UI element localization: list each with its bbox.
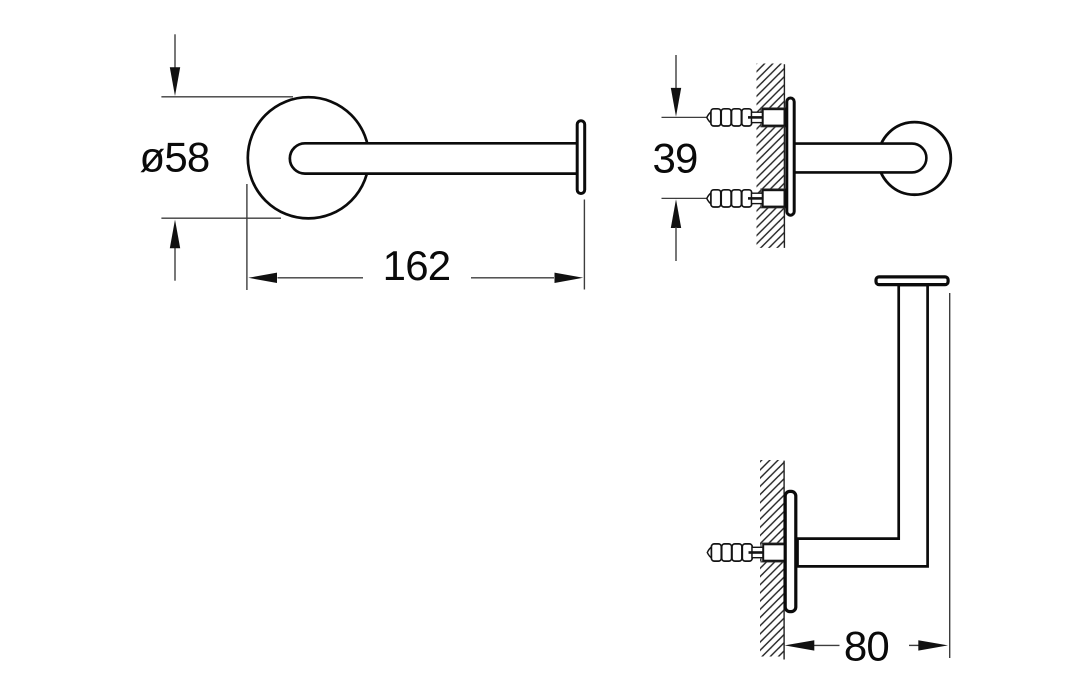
- dimension 162: dimension line left segment: [278, 277, 364, 279]
- dimension 80: right extension line: [949, 293, 951, 658]
- dimension 80: dimension line left segment: [814, 644, 840, 646]
- wall face line (side view bottom): [783, 461, 785, 660]
- holder end circle (side view): [878, 122, 951, 195]
- dimension 39: lower arrow (up): [671, 199, 681, 228]
- roll bar (front): [290, 143, 577, 173]
- dimension 39: upper leader line: [675, 55, 677, 89]
- lower screw centerline: [662, 197, 708, 199]
- wall plate disc (front): [248, 97, 369, 218]
- dimension 80: left arrow: [785, 640, 815, 650]
- dimension ø58: lower leader line: [174, 248, 176, 281]
- wall plate (side view, edge-on): [787, 98, 794, 215]
- dimension ø58: upper arrow (down): [170, 67, 180, 96]
- top end disc (edge-on): [876, 277, 948, 285]
- dimension 39: upper arrow (down): [671, 88, 681, 117]
- dimension 80: right arrow: [918, 640, 948, 650]
- wall plate (side view bottom, edge-on): [785, 491, 796, 611]
- dimension ø58: top extension line: [161, 96, 293, 98]
- wall hatching (side view top): [757, 64, 785, 248]
- lower screw hole in wall: [761, 189, 785, 208]
- dimension 162: dimension line right segment: [471, 277, 554, 279]
- svg-text:39: 39: [652, 134, 697, 181]
- dimension 162: right arrow: [555, 273, 584, 283]
- svg-text:80: 80: [844, 622, 889, 669]
- dimension ø58: bottom extension line: [161, 217, 281, 219]
- dimension 162: right extension line: [583, 200, 585, 290]
- upper screw centerline: [662, 116, 708, 118]
- dimension 39: lower leader line: [675, 227, 677, 261]
- lower screw: [707, 190, 785, 207]
- dimension ø58: lower arrow (up): [170, 220, 180, 249]
- wall hatching (side view bottom): [760, 460, 784, 657]
- dimension 162: left extension line: [246, 184, 248, 290]
- svg-text:ø58: ø58: [140, 134, 210, 181]
- dimension ø58: upper leader line: [174, 34, 176, 70]
- upper screw hole in wall: [761, 108, 785, 127]
- screw (bottom view): [707, 544, 785, 561]
- roll bar (side view): [796, 144, 927, 173]
- bar end disc (front, edge-on): [577, 121, 585, 194]
- upper screw: [707, 109, 785, 126]
- L-shaped holder arm (side view bottom): [798, 285, 928, 566]
- screw hole in wall (bottom view): [761, 543, 785, 562]
- wall face line (side view top): [783, 64, 785, 248]
- svg-text:162: 162: [383, 242, 451, 289]
- dimension 80: dimension line right segment: [909, 644, 920, 646]
- dimension 162: left arrow: [248, 273, 277, 283]
